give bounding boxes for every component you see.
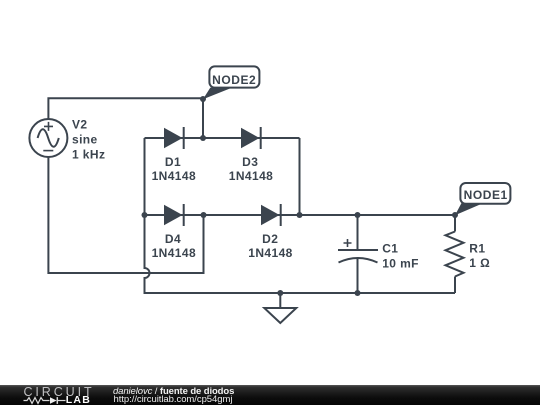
junction dot NODE2 [200, 96, 206, 102]
svg-text:NODE2: NODE2 [212, 73, 256, 87]
svg-text:1N4148: 1N4148 [152, 246, 196, 260]
diode D4 [164, 204, 184, 226]
wire C1 bottom stem [357, 259, 359, 293]
junction dot ground [277, 290, 283, 296]
footer url line 2 [114, 394, 233, 405]
junction dot C1 bottom [355, 290, 361, 296]
CircuitLab logo [0, 385, 110, 405]
label D1 1N4148 [152, 155, 196, 183]
svg-text:D2: D2 [262, 232, 278, 246]
capacitor C1 [338, 239, 378, 263]
wire ground stem [279, 293, 281, 308]
svg-text:sine: sine [72, 132, 98, 146]
svg-text:C1: C1 [382, 241, 398, 255]
wire R1 top lead [454, 215, 456, 232]
node NODE1 flag [455, 183, 510, 215]
wire NODE2 junction down to top diode row [202, 98, 204, 138]
svg-text:LAB: LAB [66, 394, 91, 405]
wire left vertical D1/D4 anodes upper part [144, 138, 146, 215]
svg-text:1N4148: 1N4148 [152, 169, 196, 183]
svg-text:1 Ω: 1 Ω [469, 256, 490, 270]
svg-text:R1: R1 [469, 241, 485, 255]
node NODE2 flag [203, 66, 259, 99]
junction dot R1 top NODE1 [452, 212, 458, 218]
label D2 1N4148 [248, 232, 292, 260]
svg-text:D4: D4 [165, 232, 181, 246]
wire C1 top stem [357, 215, 359, 250]
diode D3 [241, 127, 261, 149]
logo diode glyph [50, 397, 66, 404]
resistor R1 [446, 232, 464, 277]
svg-text:1 kHz: 1 kHz [72, 147, 105, 161]
ground [264, 308, 296, 323]
wire V2 bottom lead return to bridge mid [48, 157, 203, 274]
junction dot C1 top [355, 212, 361, 218]
junction dot bottom row mid [201, 212, 207, 218]
label R1 1 Ohm [469, 241, 490, 270]
svg-text:1N4148: 1N4148 [229, 169, 273, 183]
junction dot bottom row right [297, 212, 303, 218]
svg-text:D1: D1 [165, 155, 181, 169]
voltage source V2 [29, 119, 67, 157]
wire right vertical D3/D2 cathodes [299, 138, 301, 215]
label D4 1N4148 [152, 232, 196, 260]
footer attribution line 1 [113, 386, 234, 397]
wire bottom diode row and output rail [145, 214, 456, 216]
logo resistor glyph [24, 398, 50, 404]
diode D2 [261, 204, 281, 226]
wire V2 top lead to NODE2 junction [48, 98, 203, 120]
footer bar [0, 385, 540, 405]
svg-text:NODE1: NODE1 [464, 188, 508, 202]
wire ground rail [145, 292, 456, 293]
svg-text:10 mF: 10 mF [382, 256, 419, 270]
svg-text:D3: D3 [242, 155, 258, 169]
label C1 10 mF [382, 241, 419, 270]
wire left vertical with hop over V2 return [145, 215, 150, 292]
svg-text:V2: V2 [72, 117, 87, 131]
diode D1 [164, 127, 184, 149]
wire top diode row [145, 137, 300, 139]
label D3 1N4148 [229, 155, 273, 183]
junction dot bottom row left [142, 212, 148, 218]
junction dot top row mid [200, 135, 206, 141]
svg-text:1N4148: 1N4148 [248, 246, 292, 260]
wire R1 bottom lead [454, 277, 456, 294]
label V2 sine 1 kHz [72, 117, 105, 161]
